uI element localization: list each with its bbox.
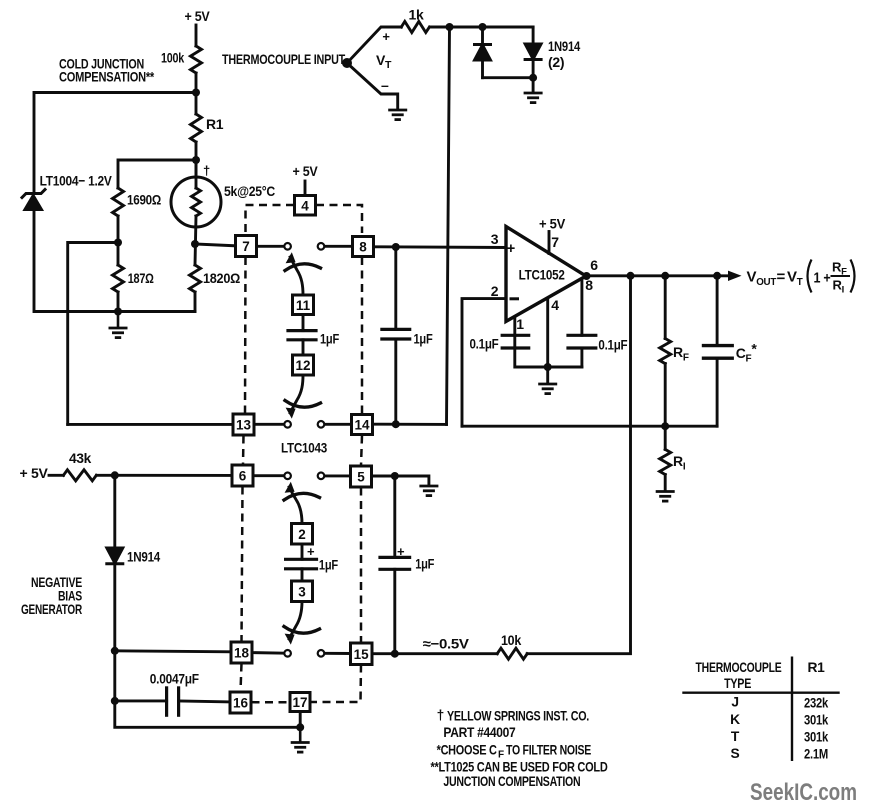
svg-text:18: 18 (234, 646, 250, 661)
svg-text:16: 16 (233, 696, 249, 711)
svg-text:+: + (307, 544, 315, 559)
pin box 12 (293, 355, 314, 375)
svg-text:11: 11 (296, 298, 311, 313)
wire 10k to feedback riser (527, 276, 630, 654)
notes text (431, 708, 608, 790)
svg-text:RI: RI (673, 453, 686, 473)
switch S3 wiper (289, 487, 302, 524)
svg-text:232k: 232k (804, 696, 829, 711)
svg-text:301k: 301k (804, 730, 829, 745)
wire cap to pin12 (302, 340, 305, 355)
junction clamp top (479, 23, 487, 31)
vout paren left (808, 260, 812, 293)
wire pin17 stem (299, 712, 302, 728)
switch S4 wiper (289, 602, 302, 640)
svg-text:LT1004− 1.2V: LT1004− 1.2V (40, 173, 113, 189)
svg-text:*CHOOSE C: *CHOOSE C (437, 742, 497, 757)
svg-text:2: 2 (491, 283, 499, 299)
svg-text:+ 5V: + 5V (539, 216, 566, 232)
svg-text:VOUT: VOUT (747, 269, 777, 289)
resistor 1820 (190, 265, 201, 292)
wire feedback rail (462, 425, 717, 428)
wire op-amp pin8 clock (580, 280, 583, 336)
svg-text:301k: 301k (804, 713, 829, 728)
wire op-amp -input (462, 299, 506, 427)
resistor R1 (191, 114, 202, 142)
svg-text:CF*: CF* (736, 341, 758, 365)
capacitor 0.1uF right (568, 334, 596, 337)
pin box 3 (292, 581, 313, 602)
pin box 16 (230, 692, 251, 713)
resistor RI (664, 426, 667, 449)
svg-text:†: † (437, 708, 444, 723)
svg-text:GENERATOR: GENERATOR (21, 601, 82, 617)
svg-text:100k: 100k (161, 50, 184, 66)
wire output (586, 274, 729, 277)
switch contact circles row 18-15 (284, 650, 291, 657)
ground RI (656, 492, 675, 502)
svg-text:2: 2 (298, 527, 306, 542)
ground op-amp (538, 384, 557, 394)
wire 1820 bottom (194, 292, 197, 312)
wire mid-left feedback rail (68, 423, 233, 426)
junction hold cap top (392, 243, 400, 251)
svg-text:3: 3 (491, 231, 499, 247)
svg-text:187Ω: 187Ω (128, 270, 154, 286)
svg-text:+: + (397, 544, 405, 559)
svg-text:1: 1 (516, 316, 524, 332)
svg-text:(2): (2) (548, 54, 564, 70)
svg-text:6: 6 (239, 469, 247, 484)
wire contact to pin5 (324, 474, 350, 477)
wire pin18 row (115, 651, 231, 652)
wire hold cap lower riser (393, 476, 396, 557)
wire pin7 to contact (257, 245, 285, 248)
svg-text:0.1μF: 0.1μF (470, 336, 500, 352)
resistor RF (664, 276, 667, 339)
wire pin6 to contact (253, 474, 284, 477)
svg-text:SeekIC.com: SeekIC.com (750, 779, 857, 806)
svg-text:K: K (730, 712, 740, 727)
table divider vertical (791, 657, 793, 762)
svg-text:6: 6 (590, 257, 598, 273)
wire 100k to node (195, 73, 198, 114)
junction RI top (661, 422, 669, 430)
vout formula (747, 260, 848, 296)
junction 1820 pin7 (191, 240, 199, 248)
junction 1k output (446, 23, 454, 31)
resistor 1690 (113, 188, 124, 216)
svg-text:3: 3 (298, 584, 306, 599)
svg-text:1μF: 1μF (320, 331, 340, 347)
svg-text:TO FILTER NOISE: TO FILTER NOISE (506, 742, 591, 757)
junction output CF (713, 272, 721, 280)
svg-text:JUNCTION COMPENSATION: JUNCTION COMPENSATION (443, 774, 580, 789)
thermistor circle (171, 177, 221, 227)
svg-text:4: 4 (551, 297, 559, 313)
table thermocouple type (696, 660, 829, 762)
svg-text:1μF: 1μF (415, 556, 435, 572)
pin box 7 (236, 236, 257, 257)
svg-text:†: † (203, 163, 210, 178)
output arrowhead (728, 271, 742, 281)
capacitor 1uF hold upper (382, 328, 410, 331)
svg-text:LTC1043: LTC1043 (281, 440, 327, 456)
switch S2 wiper (290, 375, 303, 413)
wire pin14 to riser (373, 423, 447, 426)
svg-text:0.1μF: 0.1μF (598, 337, 628, 353)
wire hold cap riser (394, 247, 397, 329)
wire node to pin7 (195, 244, 236, 246)
wire 1690 to 187 node (117, 216, 120, 265)
resistor 43k (63, 470, 96, 481)
svg-text:YELLOW SPRINGS INST. CO.: YELLOW SPRINGS INST. CO. (447, 708, 589, 723)
svg-text:5: 5 (357, 470, 365, 485)
svg-text:1N914: 1N914 (548, 38, 580, 54)
svg-text:RF: RF (832, 260, 847, 278)
capacitor 1uF hold lower (380, 556, 410, 559)
wire thermocouple long vertical (447, 27, 450, 424)
thermistor element (195, 160, 198, 188)
pin box 5 (351, 466, 372, 487)
ground clamp diodes (524, 93, 543, 103)
svg-text:5k@25°C: 5k@25°C (224, 183, 275, 199)
junction 187 ground (114, 308, 122, 316)
resistor 187 (113, 265, 124, 292)
svg-text:1k: 1k (409, 7, 424, 23)
junction pin15 node (391, 650, 399, 658)
pin box 4 (295, 196, 316, 216)
wire 187 to ground rail (117, 292, 120, 312)
label opamp minus bar (510, 297, 520, 300)
svg-text:1μF: 1μF (319, 557, 339, 573)
svg-text:1 +: 1 + (814, 271, 831, 287)
capacitor C-fly lower plates (286, 558, 317, 561)
junction opamp ground rail (544, 363, 552, 371)
zener LT1004 (22, 190, 45, 198)
wire pin2 to cap (301, 544, 304, 559)
resistor 1k (401, 22, 429, 33)
wire contact to pin8 (324, 245, 352, 248)
junction output riser (627, 272, 635, 280)
wire thermocouple - leg (347, 63, 398, 109)
wire clamp bottom (483, 76, 534, 79)
wire thermistor to 1820 (195, 216, 196, 265)
wire op-amp ground stem (546, 367, 549, 384)
svg-text:PART #44007: PART #44007 (443, 725, 516, 740)
junction output RF (661, 272, 669, 280)
svg-text:1690Ω: 1690Ω (127, 192, 161, 208)
svg-text:TYPE: TYPE (724, 676, 751, 691)
capacitor C-fly upper plates (288, 329, 316, 332)
wire cold junction horizontal (34, 93, 196, 194)
svg-text:+: + (382, 29, 390, 44)
capacitor 0.1uF left (502, 334, 529, 337)
wire zener ground rail (34, 210, 195, 312)
pin box 2 (292, 524, 313, 545)
junction 100k node (192, 89, 200, 97)
svg-text:12: 12 (295, 358, 310, 373)
svg-text:≈−0.5V: ≈−0.5V (423, 636, 470, 652)
wire negative bias vertical (113, 475, 116, 547)
ground bottom rail (299, 727, 302, 742)
junction cap row node (111, 697, 119, 705)
switch contact circles row 7-8 (284, 243, 291, 250)
table divider horizontal (682, 692, 839, 694)
diode D2 right clamp (532, 27, 535, 44)
svg-text:1N914: 1N914 (127, 549, 160, 565)
wire node to 1690 (118, 160, 196, 188)
diode D1 left clamp (481, 27, 484, 44)
pin box 17 (290, 693, 310, 712)
junction hold cap bottom (392, 420, 400, 428)
junction clamp bottom (529, 74, 537, 82)
svg-text:**LT1025 CAN BE USED FOR COLD: **LT1025 CAN BE USED FOR COLD (431, 760, 608, 775)
pin box 11 (293, 295, 314, 315)
wire 43k to pin6 (97, 474, 232, 477)
pin box 15 (351, 643, 373, 665)
wire R1 to thermistor node (195, 142, 198, 177)
svg-text:RI: RI (833, 278, 844, 296)
wire pin8 to op-amp +input (374, 245, 507, 249)
vout paren right (851, 260, 855, 293)
svg-text:4: 4 (301, 198, 309, 213)
junction pin18 node (111, 647, 119, 655)
svg-text:VT: VT (787, 269, 803, 289)
svg-text:1820Ω: 1820Ω (203, 270, 240, 286)
svg-text:13: 13 (236, 418, 252, 433)
svg-text:+ 5V: + 5V (20, 465, 49, 481)
resistor 100k (191, 46, 202, 73)
capacitor 0.0047uF (165, 688, 168, 715)
svg-text:COMPENSATION**: COMPENSATION** (59, 69, 155, 85)
ground bridge (117, 312, 120, 328)
svg-text:43k: 43k (69, 450, 91, 466)
wire pin4 supply stem (304, 181, 307, 196)
svg-text:=: = (777, 269, 786, 286)
pin box 18 (231, 642, 252, 663)
diode 1N914 bias (107, 548, 123, 563)
wire 0.0047 cap row (115, 699, 167, 702)
wire pin5 to ground corner (372, 476, 429, 485)
junction pin5 node (391, 472, 399, 480)
svg-text:8: 8 (585, 277, 593, 293)
wire pin11 to cap (302, 315, 305, 331)
capacitor CF (716, 276, 719, 346)
dashed left column (244, 257, 247, 414)
op-amp U1 LTC1052 triangle (506, 227, 586, 322)
junction R1 node (192, 156, 200, 164)
pin box 8 (353, 237, 374, 257)
dashed pin15 to pin17 (311, 665, 361, 703)
svg-text:+ 5V: + 5V (293, 163, 319, 179)
wire cap to pin16 (179, 701, 230, 702)
wire thermocouple + leg (347, 27, 401, 63)
svg-text:0.0047μF: 0.0047μF (150, 671, 200, 687)
wire cap to pin3 (301, 569, 304, 581)
switch S1 wiper (290, 257, 303, 295)
svg-text:–: – (381, 77, 389, 93)
svg-text:1μF: 1μF (414, 331, 434, 347)
svg-text:VT: VT (376, 52, 392, 71)
wire bottom ground rail (115, 651, 300, 728)
svg-text:7: 7 (551, 234, 559, 250)
junction 1690-187 (114, 239, 122, 247)
svg-text:R1: R1 (206, 116, 224, 132)
svg-text:8: 8 (359, 240, 367, 255)
wire bridge mid-left tap (68, 243, 118, 425)
svg-text:+: + (507, 240, 516, 257)
wire +5V to 43k (49, 474, 63, 477)
junction opamp output apex (583, 272, 591, 280)
svg-text:10k: 10k (501, 632, 521, 648)
wire 1k to clamp node (430, 26, 533, 29)
resistor 10k (497, 648, 527, 659)
vout fraction bar (831, 275, 851, 277)
junction bottom ground (296, 723, 304, 731)
wire pin13 to contact (254, 423, 284, 426)
dashed right column (361, 257, 364, 414)
wire op-amp bypass rail (515, 335, 582, 367)
switch contact circles row 13-14 (284, 421, 291, 428)
wire op-amp pin1 (513, 317, 516, 335)
wire op-amp pin7 supply (548, 232, 551, 254)
svg-text:LTC1052: LTC1052 (519, 267, 565, 283)
pin box 14 (352, 415, 373, 435)
svg-text:14: 14 (354, 418, 370, 433)
pin box 13 (233, 414, 254, 435)
switch contact circles row 6-5 (284, 473, 291, 480)
svg-text:THERMOCOUPLE INPUT: THERMOCOUPLE INPUT (222, 51, 346, 67)
wire contact to pin14 (324, 423, 351, 426)
junction 43k node (111, 471, 119, 479)
svg-text:7: 7 (242, 239, 250, 254)
svg-text:+ 5V: + 5V (185, 8, 211, 24)
pin box 6 (232, 465, 253, 486)
svg-text:S: S (731, 746, 740, 761)
svg-text:THERMOCOUPLE: THERMOCOUPLE (696, 660, 782, 675)
svg-text:RF: RF (673, 344, 689, 364)
svg-text:R1: R1 (807, 660, 825, 675)
svg-text:T: T (731, 729, 740, 744)
svg-text:J: J (731, 695, 738, 710)
+5V supply top wire (195, 25, 198, 46)
dashed pin16 to pin17 (252, 701, 290, 704)
svg-text:2.1M: 2.1M (804, 747, 828, 762)
junction thermocouple node (342, 58, 352, 68)
wire pin15 to -0.5V node (372, 652, 497, 655)
ground thermocouple (388, 110, 407, 120)
ground pin5 (419, 486, 438, 496)
dashed LTC1043 top edge (246, 205, 295, 232)
svg-text:17: 17 (292, 695, 307, 710)
wire op-amp pin4 (546, 299, 549, 368)
svg-text:15: 15 (354, 647, 370, 662)
